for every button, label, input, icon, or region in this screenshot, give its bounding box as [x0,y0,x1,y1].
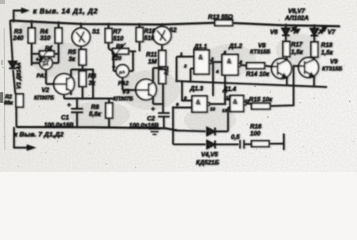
wire bottom rail [16,127,177,130]
resistor R18 [311,42,318,59]
gate & symbols [196,55,238,107]
gate D1.1 [177,50,223,82]
socket S1 [72,24,90,49]
scan artifacts left edge [0,0,5,150]
wire left rail [10,21,13,63]
wire emitter return bus [177,81,328,87]
gate D1.3 [173,81,225,112]
resistor R4 [55,22,62,54]
resistor R9h [109,43,137,57]
wire arrow to pin14 [14,11,27,21]
wire top rail [10,21,215,25]
diode V4 [207,128,228,136]
resistor R3 [28,21,35,66]
wire R11-R12 junction [153,67,162,77]
resistor R13 [215,20,233,26]
resistor R14 [247,63,272,69]
wire V5 branch [172,108,174,145]
gate D1.2 [222,55,247,105]
transistor V2 [54,70,75,96]
paper noise [0,0,357,172]
diode V1 [9,62,17,69]
node dots [12,19,316,131]
wire V4 branch [173,129,206,132]
socket S2 [153,25,171,51]
wire D1.1 out feedback [212,62,214,96]
resistor R8 [106,99,113,128]
diode V5 [207,141,239,149]
transistor V9 [298,58,319,87]
led V7 [311,26,327,42]
resistor R12 [159,70,166,114]
resistor R5 [79,50,86,66]
meter PA2 [114,51,136,90]
led V6 [282,25,299,41]
gate D1.4 [225,96,251,132]
resistor R17 [283,42,290,60]
ground [149,129,161,135]
resistor R16 [252,141,284,147]
capacitor C1 [71,99,83,128]
resistor R6 [79,71,86,99]
transistor V8 [271,59,291,85]
capacitor C2 [158,113,170,128]
resistor R1 [32,46,59,60]
resistor R7 [105,24,112,48]
transistor V3 [136,76,163,104]
wire arrow to pin 7 [14,127,29,148]
resistor R10 [136,25,143,52]
resistor R2 [16,94,23,107]
terminal X1 [283,134,285,151]
resistor R11 [159,51,166,67]
meter PA1 [32,54,59,84]
resistor R15 [252,66,299,109]
capacitor C3 [240,140,252,149]
wire emitter bus left [64,94,113,98]
wire R5-R6 junction [71,65,93,99]
pin numbers [176,50,250,113]
